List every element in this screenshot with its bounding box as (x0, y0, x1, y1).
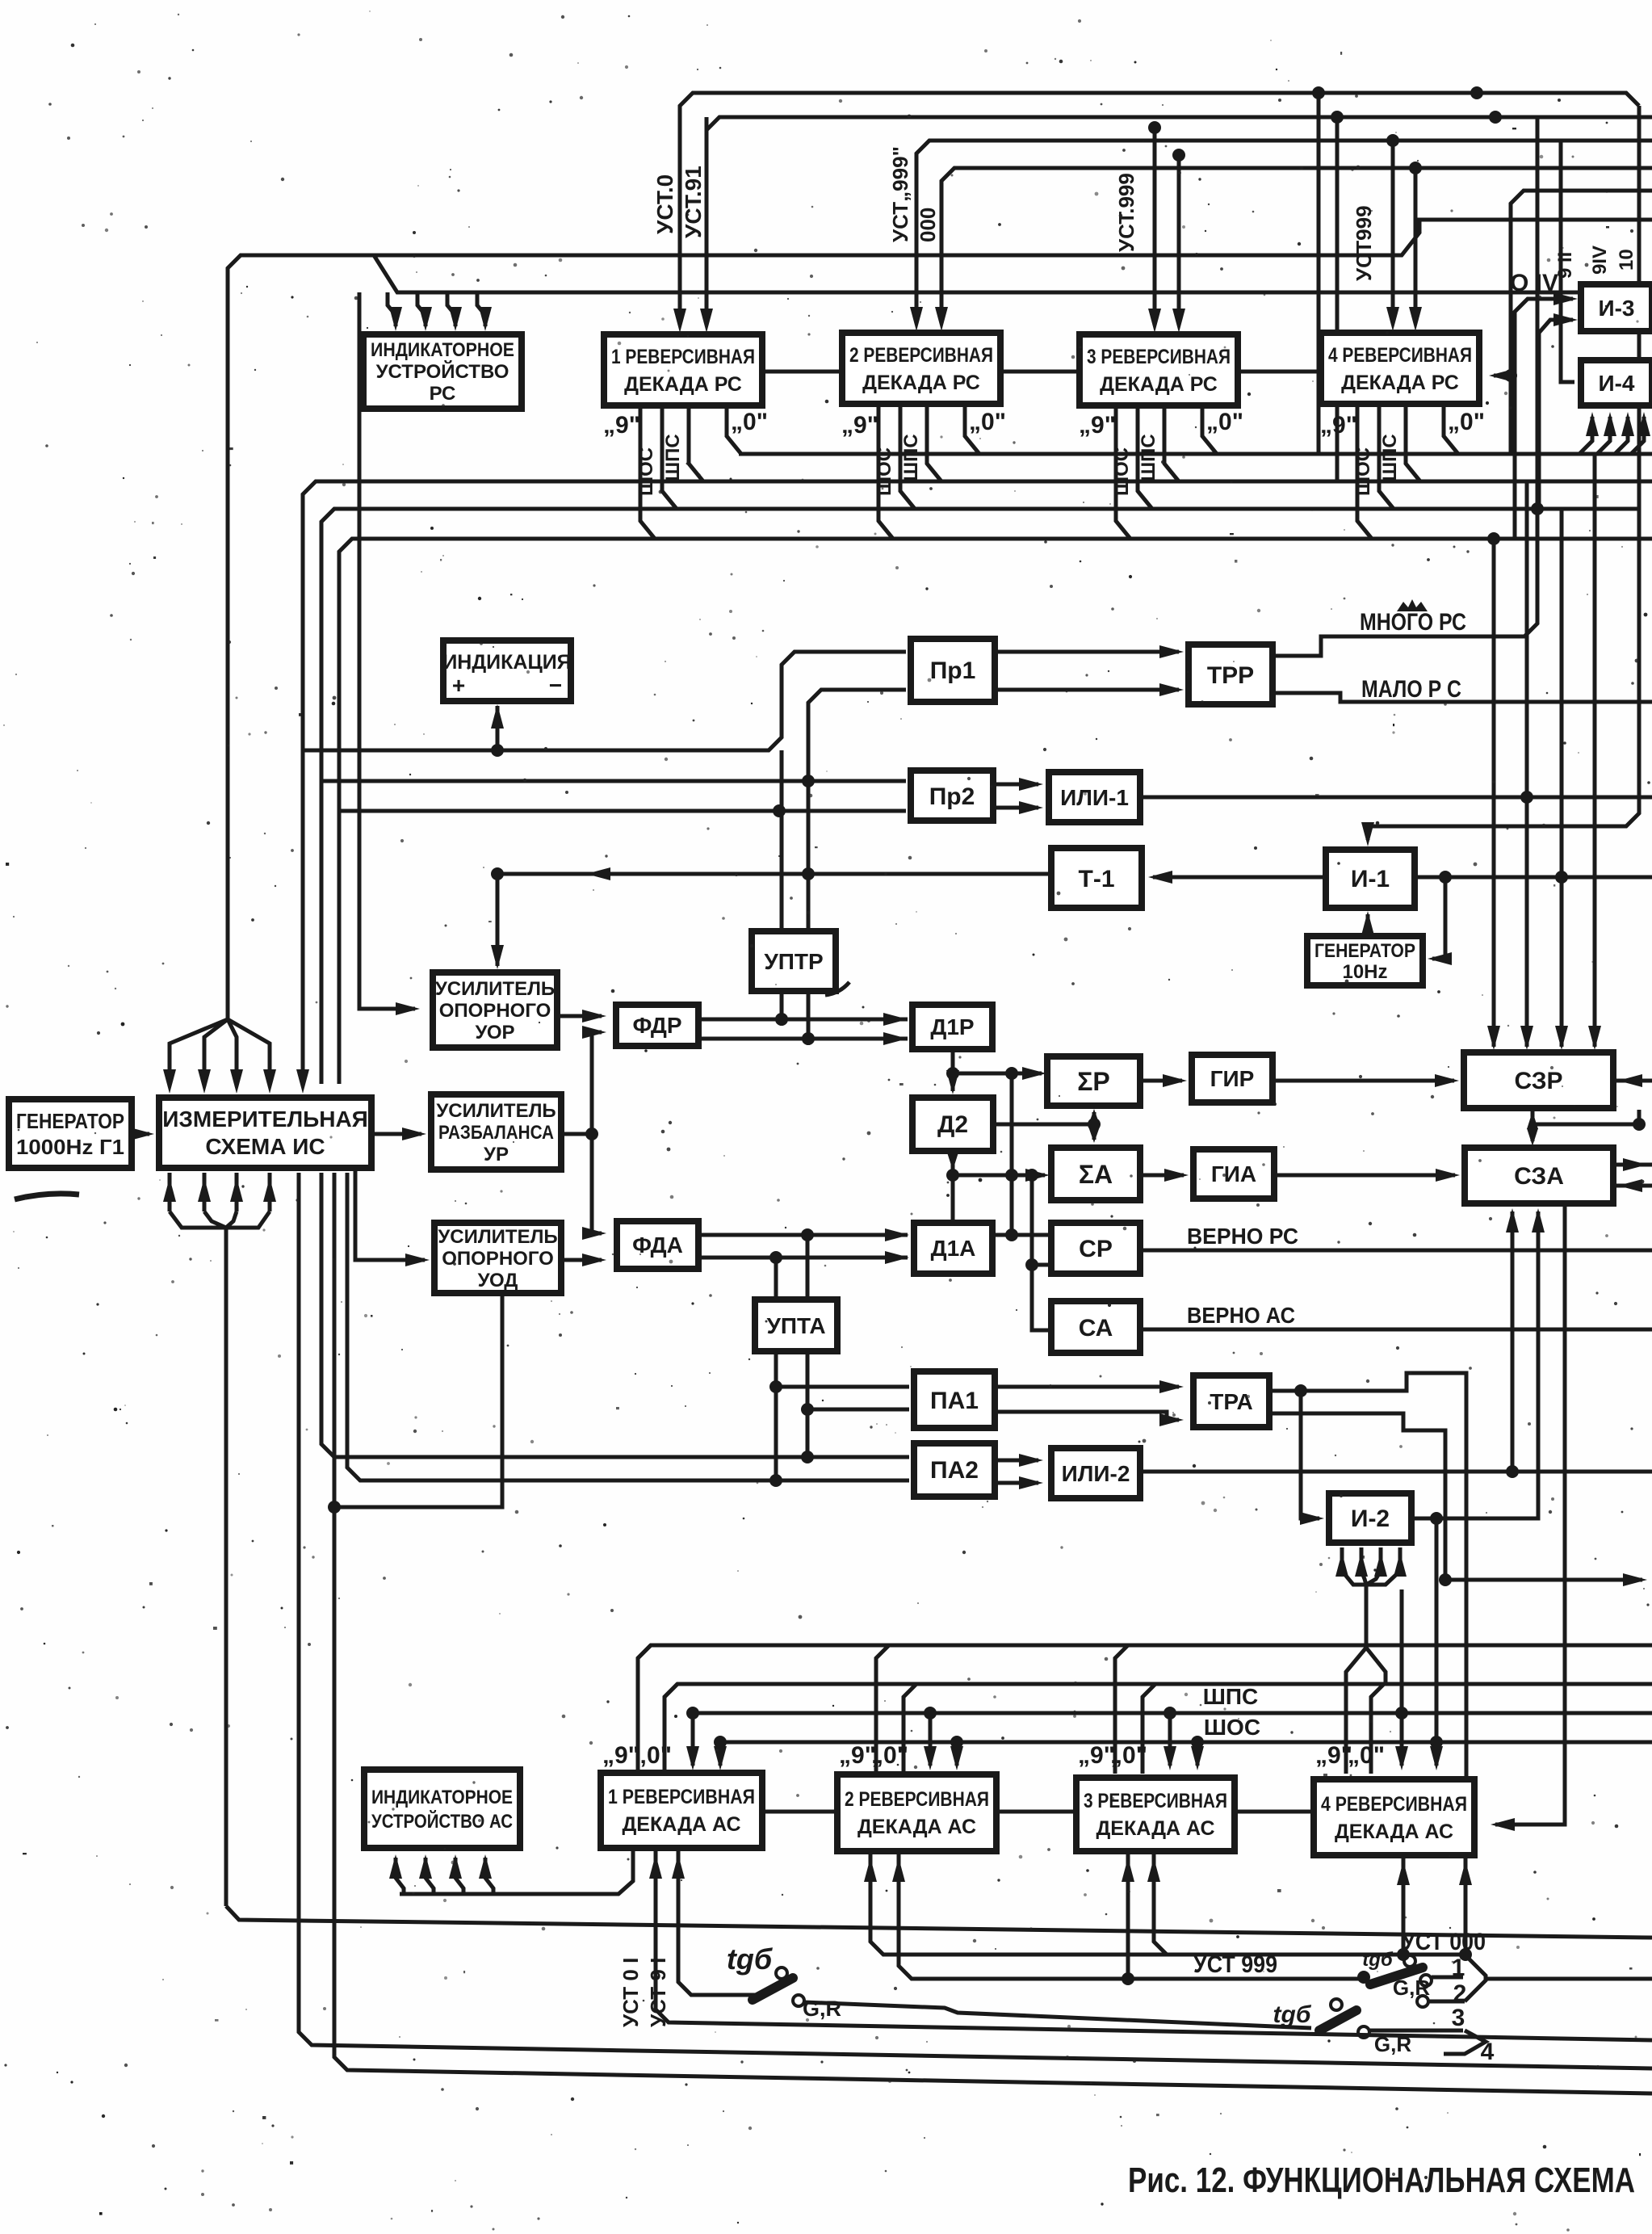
wire Д1Р to ΣР (953, 1072, 1042, 1076)
svg-text:ГЕНЕРАТОР: ГЕНЕРАТОР (16, 1109, 124, 1133)
svg-text:Т-1: Т-1 (1079, 866, 1115, 892)
wire switch2 to bracket (1432, 1976, 1463, 1980)
wire Г1 to ИС (132, 1132, 149, 1136)
svg-text:ИНДИКАТОРНОЕ: ИНДИКАТОРНОЕ (371, 339, 514, 361)
svg-text:СР: СР (1079, 1236, 1113, 1262)
svg-text:ДЕКАДА РС: ДЕКАДА РС (624, 373, 742, 396)
wire Пр2 to ИЛИ-1 upper (993, 783, 1038, 787)
wire ТРА to И-2 (1301, 1391, 1319, 1518)
svg-text:4 РЕВЕРСИВНАЯ: 4 РЕВЕРСИВНАЯ (1321, 1793, 1467, 1816)
wire vertical x430 to ПА2 lower (347, 1173, 909, 1480)
wire stub ШОС (1138, 405, 1152, 509)
svg-text:УСТРОЙСТВО: УСТРОЙСТВО (376, 360, 509, 383)
wire ШПС arrow (1395, 1707, 1408, 1720)
block ПА2 (914, 1443, 995, 1497)
wire bus AS1 (638, 1645, 1652, 1774)
wire ИС to УОД (355, 1168, 425, 1260)
wire x1736 drop (1400, 1589, 1404, 1709)
wire Пр2 to ИЛИ-1 lower (993, 806, 1038, 810)
wire ШПС arrow (924, 1707, 937, 1720)
block ИНДИКАЦИЯ (443, 640, 571, 701)
svg-text:tgб: tgб (727, 1942, 774, 1976)
wire stub 9 (1357, 405, 1372, 539)
svg-text:1000Hz Г1: 1000Hz Г1 (16, 1135, 124, 1159)
svg-text:2 РЕВЕРСИВНАЯ: 2 РЕВЕРСИВНАЯ (849, 344, 993, 367)
block Пр1 (911, 639, 995, 702)
wire И-2 to СЗА (1411, 1211, 1538, 1518)
wire УСТ,999 drop into decade2 (910, 307, 923, 331)
block Д1А (914, 1223, 992, 1274)
wire y1956 line (1445, 1578, 1642, 1582)
wire link decade3-4 РС (1235, 370, 1321, 374)
svg-text:УСИЛИТЕЛЬ: УСИЛИТЕЛЬ (438, 1226, 557, 1248)
block ГИА (1193, 1149, 1274, 1199)
wire link decade3-4 АС (1235, 1810, 1314, 1814)
svg-text:„0": „0" (871, 1742, 908, 1769)
svg-text:И-2: И-2 (1351, 1505, 1390, 1532)
svg-text:УСТ999: УСТ999 (1352, 205, 1376, 281)
svg-text:000: 000 (916, 208, 940, 242)
wire stub ШОС (900, 405, 915, 509)
wire vertical x414 (334, 1173, 1652, 2093)
wire bus AS3 ШПС (693, 1711, 1652, 1715)
block УПТА (755, 1300, 837, 1351)
svg-text:Пр2: Пр2 (929, 783, 975, 810)
wire И-1 to Т-1 (1153, 876, 1326, 880)
svg-text:И-1: И-1 (1351, 866, 1390, 892)
wire ГИР to СЗР (1273, 1079, 1454, 1083)
wire Пр1 to ТРР upper (995, 650, 1179, 654)
svg-text:И-4: И-4 (1598, 371, 1634, 396)
svg-text:−: − (549, 673, 562, 698)
icon crown (1397, 599, 1428, 611)
wire Д2 to ΣР/ΣА tee (993, 1123, 1094, 1127)
wire decade4 АС 0 feeder (1371, 1684, 1384, 1774)
svg-text:УСИЛИТЕЛЬ: УСИЛИТЕЛЬ (436, 1100, 556, 1122)
svg-text:МАЛО Р С: МАЛО Р С (1361, 676, 1461, 703)
block 3 РЕВЕРСИВНАЯ ДЕКАДА АС (1076, 1778, 1235, 1851)
wire fan into indicator РС (388, 292, 396, 326)
svg-text:1 РЕВЕРСИВНАЯ: 1 РЕВЕРСИВНАЯ (608, 1786, 755, 1808)
wire bus bottom y2532 dot (898, 1978, 899, 1980)
block ФДР (616, 1005, 698, 1046)
svg-text:3 РЕВЕРСИВНАЯ: 3 РЕВЕРСИВНАЯ (1087, 346, 1231, 368)
wire Пр1 to ТРР lower (995, 688, 1179, 692)
wire bracket out (1486, 1977, 1652, 1981)
wire СЗА right stubs (1613, 1163, 1652, 1167)
svg-text:УПТР: УПТР (764, 949, 823, 974)
wire stub 9 (640, 405, 655, 539)
wire Пр1 lower input (808, 690, 906, 1039)
svg-text:„0": „0" (1206, 409, 1243, 435)
wire x1779 drop (1435, 1518, 1439, 1742)
svg-text:УСТ.0: УСТ.0 (652, 174, 677, 234)
wire Д1Р to Д2 (951, 1049, 955, 1091)
block 1 РЕВЕРСИВНАЯ ДЕКАДА РС (604, 334, 762, 405)
wire fan into indicator АС (396, 1858, 404, 1894)
wire ГИА to СЗА (1274, 1174, 1455, 1178)
svg-text:ШОС: ШОС (874, 447, 895, 496)
svg-text:4 РЕВЕРСИВНАЯ: 4 РЕВЕРСИВНАЯ (1328, 344, 1472, 367)
svg-text:ГИР: ГИР (1210, 1066, 1255, 1091)
wire И-2 Y split (1346, 1648, 1366, 1774)
wire bracket upper (1465, 1955, 1486, 2001)
wire switch3 line to bracket (1370, 2029, 1463, 2033)
svg-text:ДЕКАДА АС: ДЕКАДА АС (622, 1813, 740, 1836)
wire bus RS1 (739, 452, 1652, 456)
svg-text:G,R: G,R (1374, 2032, 1411, 2056)
wire СЗР to СЗА (1531, 1111, 1535, 1141)
wire ИС top arrows right group (296, 1069, 309, 1094)
svg-text:ШПС: ШПС (1138, 434, 1159, 481)
svg-text:10Hz: 10Hz (1342, 961, 1387, 983)
svg-text:ШПС: ШПС (1203, 1684, 1258, 1709)
wire dot x1001 lower (802, 1032, 815, 1045)
svg-text:УСТ 0 I: УСТ 0 I (618, 1958, 643, 2027)
wire ИС top fan (170, 1019, 228, 1082)
svg-text:ДЕКАДА АС: ДЕКАДА АС (857, 1816, 976, 1838)
svg-text:РАЗБАЛАНСА: РАЗБАЛАНСА (438, 1122, 554, 1144)
wire left drop to АС indicator (226, 1906, 1652, 1938)
svg-text:ИЗМЕРИТЕЛЬНАЯ: ИЗМЕРИТЕЛЬНАЯ (162, 1107, 368, 1132)
block 2 РЕВЕРСИВНАЯ ДЕКАДА РС (842, 333, 1000, 404)
wire bus T4 (941, 168, 1652, 321)
wire drop decade3 a (1148, 121, 1161, 134)
svg-text:УОР: УОР (475, 1022, 514, 1044)
wire vertical x1934 to СЗР (1560, 509, 1564, 1047)
wire ПА1 lower input (807, 1408, 909, 1412)
wire decade4 АС drop a (1402, 1858, 1406, 1955)
wire ПА1 to ТРА lower (995, 1412, 1179, 1420)
wire О IV into И-3 (1515, 299, 1573, 539)
svg-text:СХЕМА ИС: СХЕМА ИС (205, 1134, 325, 1159)
wire СЗА to decade4 АС (1495, 1203, 1565, 1825)
wire ВЕРНО АС (1140, 1328, 1652, 1332)
svg-text:„0": „0" (1110, 1742, 1147, 1769)
svg-text:РС: РС (430, 383, 456, 405)
wire bus AS2 (665, 1684, 1652, 1774)
wire Д2 chain to ΣА (953, 1174, 1045, 1178)
wire stub 9 (878, 405, 893, 539)
block И-3 (1581, 284, 1652, 331)
wire МНОГО РС (1273, 117, 1537, 656)
wire ПА1 upper input (776, 1385, 909, 1389)
wire vertical x965 Пр1 upper continuation (780, 750, 784, 1019)
wire stub into decade4 РС right (1504, 369, 1517, 382)
wire 9 feeder (638, 1645, 651, 1774)
svg-text:УСТ 000: УСТ 000 (1402, 1929, 1486, 1955)
wire bus B1 left loop (228, 220, 1652, 1019)
wire ПА2 to ИЛИ-2 lower (995, 1481, 1038, 1485)
wire ИС fan arrows (163, 1069, 176, 1094)
svg-text:ДЕКАДА РС: ДЕКАДА РС (1341, 372, 1459, 394)
svg-text:УР: УР (484, 1144, 509, 1165)
wire switch1 continuation (804, 2002, 1311, 2028)
wire ИЛИ-2 output (1140, 1470, 1652, 1474)
wire УР output junction (561, 1132, 592, 1136)
block СЗР (1464, 1052, 1613, 1108)
wire bus T1 (УСТ.0 net) (680, 93, 1639, 323)
wire ИЛИ-1 output (1140, 796, 1652, 800)
svg-text:„0": „0" (731, 409, 768, 435)
svg-text:УСТ 9 I: УСТ 9 I (646, 1958, 670, 2027)
svg-text:10: 10 (1616, 249, 1637, 271)
mark УПТР corner flick (825, 982, 849, 995)
block ГЕНЕРАТОР 10Hz (1307, 936, 1423, 985)
block ТРР (1189, 645, 1273, 704)
svg-text:УОД: УОД (478, 1270, 518, 1291)
svg-text:УСТ„999": УСТ„999" (888, 146, 912, 242)
svg-text:ΣР: ΣР (1077, 1067, 1110, 1096)
wire 0 feeder (665, 1684, 677, 1774)
wire Д2 to Д1А (951, 1151, 955, 1223)
wire decade3 АС drop a (1154, 1854, 1167, 1955)
wire x1253 down (1010, 1073, 1014, 1235)
wire Д1А to СР (992, 1233, 1051, 1237)
block 4 РЕВЕРСИВНАЯ ДЕКАДА РС (1321, 333, 1479, 404)
svg-text:О IV: О IV (1510, 270, 1558, 296)
wire vertical x1891 to СЗР (1525, 481, 1529, 1047)
wire 0 feeder (1143, 1684, 1155, 1774)
wire stub ШПС (689, 405, 703, 481)
wire ФДР to Д1Р upper (698, 1018, 908, 1022)
svg-text:СЗР: СЗР (1514, 1068, 1562, 1094)
wire УОР to ФДР upper (557, 1014, 602, 1018)
block 1 РЕВЕРСИВНАЯ ДЕКАДА АС (601, 1773, 762, 1848)
svg-text:ГИА: ГИА (1211, 1161, 1256, 1186)
wire ПА1 to ТРА upper (995, 1385, 1179, 1389)
block ПА1 (914, 1371, 995, 1428)
block 4 РЕВЕРСИВНАЯ ДЕКАДА АС (1314, 1779, 1474, 1855)
wire УОД bottom loop (334, 1293, 502, 1507)
wire G,R circle line 2 (1417, 1996, 1428, 2007)
svg-text:Д1Р: Д1Р (930, 1014, 974, 1039)
wire ИС bottom fan (168, 1173, 172, 1211)
wire Пр2 upper input (321, 779, 906, 783)
component switch tgб 2 (1357, 1971, 1370, 1984)
wire bus B2 (374, 255, 1652, 292)
wire СЗА bottom arrow x1873 (1511, 1211, 1515, 1472)
wire ШОС arrow (714, 1736, 727, 1749)
wire ФДА to Д1А upper (698, 1233, 908, 1237)
wire УОД to ФДА lower (561, 1258, 602, 1262)
svg-text:УСТ.91: УСТ.91 (681, 166, 706, 238)
svg-text:ГЕНЕРАТОР: ГЕНЕРАТОР (1314, 940, 1415, 962)
wire И-1 feedback to ГЕНЕРАТОР 10Hz (1432, 877, 1445, 959)
texture scan speckles (1055, 58, 1056, 60)
wire drop decade3 b (1172, 149, 1185, 162)
wire И-2 bottom fan (1340, 1547, 1344, 1571)
wire Пр2 lower input (339, 809, 906, 813)
wire stub into СР lower (1032, 1263, 1051, 1267)
svg-text:„9": „9" (1079, 412, 1116, 439)
svg-text:tgб: tgб (1273, 2001, 1312, 2028)
block Д1Р (912, 1005, 992, 1049)
wire Т-1 left line (497, 872, 1051, 876)
svg-text:Д2: Д2 (937, 1111, 968, 1138)
wire stub ШОС (1379, 405, 1394, 509)
svg-text:„0": „0" (1448, 409, 1485, 435)
wire УОР input (359, 292, 415, 1009)
svg-text:ИНДИКАЦИЯ: ИНДИКАЦИЯ (442, 651, 571, 674)
block УСИЛИТЕЛЬ ОПОРНОГО УОД (434, 1223, 561, 1293)
svg-text:G,R: G,R (803, 1997, 841, 2021)
svg-text:ШПС: ШПС (900, 434, 922, 481)
block СЗА (1465, 1148, 1613, 1203)
wire УСТ999 drop into decade4 a (1386, 134, 1399, 147)
svg-text:ТРА: ТРА (1210, 1389, 1253, 1414)
wire stub 0 (1202, 405, 1217, 454)
svg-text:ТРР: ТРР (1207, 662, 1254, 689)
block Т-1 (1051, 848, 1142, 908)
wire ТРА upper output (1269, 1373, 1466, 1779)
wire 9 feeder (876, 1645, 889, 1774)
svg-text:ШПС: ШПС (662, 434, 684, 481)
wire into И-3 lower (1539, 320, 1573, 509)
svg-text:„0": „0" (635, 1742, 672, 1769)
wire УСТ 9 I drop (678, 1851, 756, 1995)
wire bus RS3 (321, 509, 1639, 1084)
wire 0 feeder (904, 1684, 916, 1774)
svg-text:3 РЕВЕРСИВНАЯ: 3 РЕВЕРСИВНАЯ (1084, 1790, 1227, 1812)
wire ПА2 to ИЛИ-2 upper (995, 1459, 1038, 1463)
block ΣР (1047, 1056, 1140, 1106)
wire link decade2-3 РС (1000, 370, 1080, 374)
svg-text:ШОС: ШОС (1352, 447, 1374, 496)
svg-text:1: 1 (1452, 1955, 1465, 1981)
block ИЗМЕРИТЕЛЬНАЯ СХЕМА ИС (159, 1098, 371, 1168)
block И-1 (1326, 850, 1415, 908)
component switch tgб 1 (753, 1978, 793, 2000)
wire decade2 АС drop b (899, 1854, 1365, 1979)
svg-text:9IV: 9IV (1589, 246, 1611, 275)
svg-text:МНОГО РС: МНОГО РС (1360, 609, 1466, 636)
wire ФДР to Д1Р lower (698, 1037, 908, 1041)
svg-text:ДЕКАДА АС: ДЕКАДА АС (1335, 1820, 1453, 1843)
wire bus RS4 (339, 539, 1652, 1084)
svg-text:ОПОРНОГО: ОПОРНОГО (439, 1000, 551, 1022)
wire УР to ФДА upper (592, 1134, 602, 1233)
wire УСТ.91 drop (705, 117, 709, 323)
svg-text:Рис. 12. ФУНКЦИОНАЛЬНАЯ СХЕМ: Рис. 12. ФУНКЦИОНАЛЬНАЯ СХЕМА (1128, 2161, 1635, 2200)
block 3 РЕВЕРСИВНАЯ ДЕКАДА РС (1080, 334, 1238, 405)
svg-text:ШОС: ШОС (1204, 1715, 1260, 1740)
wire stub ШПС (1406, 405, 1420, 481)
wire УР to ФДР lower (592, 1032, 602, 1134)
wire ТРА lower output (1269, 1413, 1445, 1580)
svg-text:ВЕРНО РС: ВЕРНО РС (1187, 1224, 1298, 1249)
wire Пр1 upper input (303, 652, 906, 750)
svg-text:ПА2: ПА2 (930, 1457, 979, 1484)
svg-text:УПТА: УПТА (766, 1313, 825, 1338)
svg-text:ДЕКАДА АС: ДЕКАДА АС (1096, 1817, 1214, 1840)
wire ΣА to ГИА (1140, 1174, 1184, 1178)
svg-text:„0": „0" (969, 409, 1006, 435)
block ИНДИКАТОРНОЕ УСТРОЙСТВО РС (363, 334, 522, 409)
svg-text:ИНДИКАТОРНОЕ: ИНДИКАТОРНОЕ (371, 1787, 513, 1808)
wire stub ШПС (927, 405, 941, 481)
wire СЗР right stub (1613, 1079, 1652, 1083)
wire ΣР to ГИР (1140, 1079, 1182, 1083)
svg-text:Д1А: Д1А (931, 1236, 976, 1261)
svg-text:4: 4 (1481, 2039, 1495, 2065)
svg-text:3: 3 (1452, 2005, 1465, 2031)
wire 9 feeder (1115, 1645, 1128, 1774)
block ИНДИКАТОРНОЕ УСТРОЙСТВО АС (364, 1770, 520, 1848)
svg-text:G,R: G,R (1393, 1976, 1430, 2000)
svg-text:„9": „9" (841, 412, 878, 439)
wire ШОС arrow (1430, 1736, 1443, 1749)
wire ГЕНЕРАТОР 10Hz to И-1 (1366, 914, 1370, 936)
wire vertical x1850 to СЗР (1492, 539, 1496, 1047)
wire МАЛО РС (1273, 693, 1652, 702)
wire bus T5 (1511, 191, 1652, 454)
svg-text:ИЛИ-2: ИЛИ-2 (1062, 1461, 1130, 1486)
wire stub 9 (1116, 405, 1130, 539)
wire И-4 left feeder (1561, 141, 1574, 382)
block УСИЛИТЕЛЬ ОПОРНОГО УОР (433, 972, 557, 1048)
block УСИЛИТЕЛЬ РАЗБАЛАНСА УР (431, 1094, 561, 1169)
wire decade3 АС drop b (1126, 1854, 1130, 1979)
wire УСТ 0 I drop (656, 1851, 1652, 2040)
svg-text:„9": „9" (1320, 412, 1357, 439)
wire ИНДИКАЦИЯ feeder (496, 874, 500, 966)
wire stub 0 (727, 405, 741, 454)
svg-text:УСТ.999: УСТ.999 (1114, 173, 1138, 252)
block ИЛИ-1 (1049, 772, 1140, 822)
wire ШПС arrow (686, 1707, 699, 1720)
wire stub ШОС (662, 405, 677, 509)
wire УСТ.0 drop (673, 309, 686, 333)
wire ВЕРНО РС (1140, 1249, 1652, 1253)
block ИЛИ-2 (1051, 1448, 1140, 1498)
block Пр2 (911, 771, 993, 821)
block ФДА (617, 1221, 698, 1269)
svg-text:2 РЕВЕРСИВНАЯ: 2 РЕВЕРСИВНАЯ (845, 1788, 989, 1811)
block ΣА (1051, 1148, 1140, 1200)
svg-text:ШОС: ШОС (1111, 447, 1133, 496)
svg-text:ШОС: ШОС (635, 447, 657, 496)
svg-text:ΣА: ΣА (1079, 1160, 1113, 1189)
wire bus T2 (УСТ.91 net) (707, 117, 1652, 323)
block СА (1051, 1301, 1140, 1353)
wire ФДА to Д1А lower (698, 1256, 908, 1260)
component switch tgб 3 (1319, 2010, 1356, 2030)
wire vertical x2030 И-1 feeder (1368, 106, 1639, 840)
svg-text:ВЕРНО АС: ВЕРНО АС (1187, 1303, 1295, 1328)
wire ШОС arrow (1191, 1736, 1204, 1749)
svg-text:9 II: 9 II (1554, 252, 1576, 279)
svg-text:ШПС: ШПС (1379, 434, 1401, 481)
block СР (1051, 1223, 1140, 1274)
wire bus RS2 (303, 481, 1652, 1084)
wire decade2 АС drop a (870, 1854, 1465, 1955)
wire И-4 bottom hooks (1579, 417, 1592, 454)
wire drop x1656 (1335, 117, 1340, 481)
wire ИС to УР (371, 1132, 421, 1136)
wire vertical x370 (299, 1173, 1652, 2068)
svg-text:Пр1: Пр1 (930, 657, 976, 684)
wire stub 0 (965, 405, 979, 454)
wire x1278 down to СА (1032, 1175, 1051, 1330)
svg-text:1 РЕВЕРСИВНАЯ: 1 РЕВЕРСИВНАЯ (611, 346, 755, 368)
wire ШОС arrow (950, 1736, 963, 1749)
block УПТР (752, 931, 836, 991)
mark stray ink under generator (15, 1194, 79, 1199)
wire bus AS4 ШОС (720, 1741, 1652, 1745)
svg-text:УСТ 999: УСТ 999 (1193, 1951, 1277, 1978)
svg-text:+: + (452, 673, 465, 698)
